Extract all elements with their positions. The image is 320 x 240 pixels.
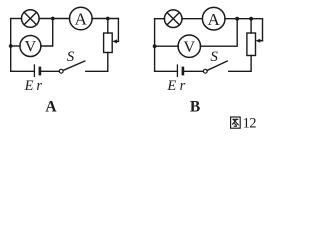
rheostat R2 body: [247, 33, 256, 56]
node: B junction at rheostat top: [249, 17, 253, 21]
svg-text:A: A: [45, 99, 57, 116]
battery E r (short thick plate): [39, 68, 42, 74]
svg-text:V: V: [184, 39, 196, 56]
rheostat R1 body: [104, 33, 113, 53]
wire: A rheostat bottom lead: [107, 53, 109, 72]
svg-text:r: r: [36, 78, 42, 94]
svg-text:A: A: [208, 10, 221, 29]
wire: B rheostat top lead: [250, 19, 252, 33]
wire: B top, left wire to lamp: [155, 18, 165, 20]
svg-text:S: S: [67, 49, 75, 65]
wire: B top, ammeter to top-right corner: [225, 18, 263, 20]
wire: A bottom, left wire to battery: [11, 70, 35, 72]
rheostat R1 slider arm with arrow: [112, 19, 118, 44]
wire: B rheostat bottom lead: [250, 56, 252, 72]
wire: B battery to switch: [184, 70, 203, 72]
battery E r (long plate): [33, 65, 35, 76]
node: B junction of voltmeter riser on top wire: [235, 17, 239, 21]
wire: B switch to bottom-right corner: [229, 70, 251, 72]
node: A junction on left wire for voltmeter: [9, 44, 13, 48]
wire: A voltmeter branch right + riser: [41, 19, 53, 47]
switch S (blade): [63, 61, 85, 70]
svg-text:r: r: [180, 78, 186, 94]
switch S2 (blade): [207, 61, 227, 70]
node: A junction of voltmeter riser on top wire: [51, 17, 55, 21]
wire: A switch to bottom-right corner: [86, 70, 108, 72]
node: B junction on left wire for voltmeter: [153, 44, 157, 48]
wire: A top, left wire to lamp: [11, 18, 22, 20]
voltmeter V1: [20, 36, 41, 57]
svg-text:E: E: [24, 78, 34, 94]
wire: A top, ammeter to top-right corner: [92, 18, 118, 20]
wire: B top, lamp to ammeter: [182, 18, 202, 20]
svg-text:V: V: [25, 39, 37, 56]
wire: B left vertical: [154, 19, 156, 72]
label 图 (figure caption character): [231, 117, 241, 128]
wire: B voltmeter branch right + riser: [201, 19, 238, 47]
wire: A left vertical: [10, 19, 12, 72]
switch S (pivot circle): [59, 69, 63, 73]
battery E r (long plate, circuit B): [176, 65, 178, 76]
lamp L2 (circle with X): [164, 10, 182, 28]
wire: A voltmeter branch left: [11, 45, 20, 47]
switch S2 (pivot circle): [203, 69, 207, 73]
battery E r (short thick plate, circuit B): [182, 68, 185, 74]
rheostat R2 slider arm with arrow: [256, 19, 263, 43]
svg-text:12: 12: [243, 116, 257, 132]
wire: B voltmeter branch left: [155, 45, 179, 47]
svg-text:B: B: [190, 99, 200, 116]
lamp L1 (circle with X): [22, 10, 40, 28]
voltmeter V2: [178, 35, 200, 57]
svg-text:A: A: [75, 10, 88, 29]
wire: A battery to switch: [41, 70, 59, 72]
node: A junction at rheostat top: [106, 17, 110, 21]
ammeter A2: [202, 7, 225, 30]
ammeter A1: [70, 7, 93, 30]
svg-text:S: S: [210, 49, 218, 65]
wire: A top, lamp to ammeter: [39, 18, 69, 20]
svg-text:E: E: [166, 78, 176, 94]
wire: B bottom, left wire to battery: [155, 70, 178, 72]
wire: A rheostat top lead: [107, 19, 109, 34]
